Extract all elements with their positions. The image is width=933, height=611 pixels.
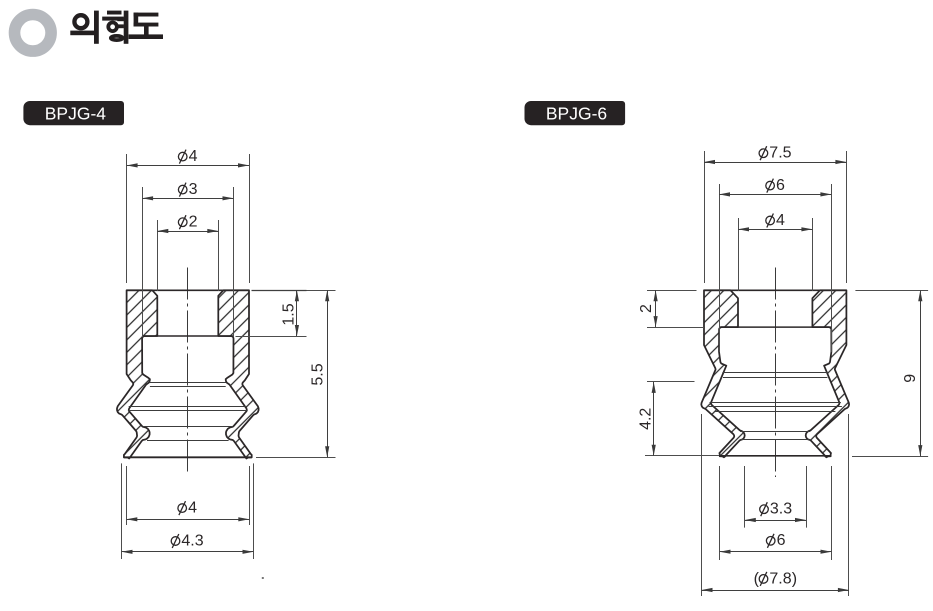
svg-text:6: 6 — [777, 532, 786, 549]
svg-text:BPJG-4: BPJG-4 — [45, 103, 107, 123]
svg-text:BPJG-6: BPJG-6 — [546, 103, 607, 123]
svg-text:4.3: 4.3 — [181, 532, 203, 549]
svg-text:7.5: 7.5 — [769, 145, 791, 162]
svg-text:5.5: 5.5 — [309, 363, 326, 385]
svg-text:4.2: 4.2 — [638, 408, 655, 430]
svg-text:9: 9 — [902, 374, 919, 383]
svg-text:4: 4 — [776, 212, 785, 229]
svg-text:2: 2 — [638, 304, 655, 313]
svg-text:3.3: 3.3 — [770, 501, 792, 518]
svg-text:7.8: 7.8 — [769, 570, 791, 587]
svg-text:): ) — [792, 570, 797, 587]
svg-text:4: 4 — [189, 148, 198, 165]
svg-text:4: 4 — [188, 500, 197, 517]
svg-text:3: 3 — [189, 181, 198, 198]
svg-text:6: 6 — [776, 177, 785, 194]
svg-text:2: 2 — [189, 214, 198, 231]
svg-text:1.5: 1.5 — [280, 303, 297, 325]
